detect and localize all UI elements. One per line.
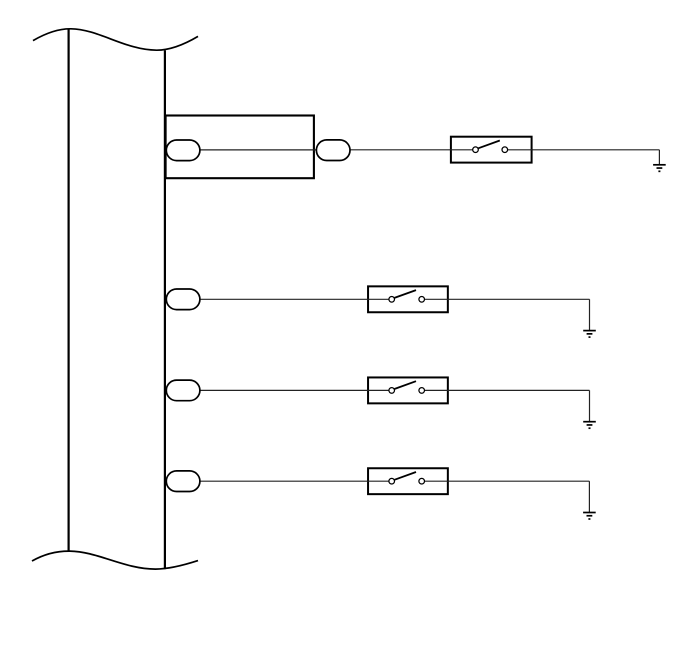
connector box U1 [166,116,314,179]
wire row1 switch S1 to ground bend [505,149,660,151]
ground row1 [653,165,666,172]
ground row2 [583,331,596,338]
wire row1 vertical drop to ground [658,150,660,165]
wire row2 vertical drop to ground [589,299,591,330]
wire row2 pad to switch S2 [201,298,392,300]
wire row1 pad to pad [201,149,317,151]
switch S3 [367,377,449,403]
break mark bottom (squiggle across bus) [32,551,198,569]
wire row2 switch S2 to ground bend [422,298,590,300]
switch S1 [450,137,533,163]
ground row3 [583,422,596,429]
wire row4 switch S4 to ground bend [422,480,590,482]
wire row1 pad to switch S1 [351,149,476,151]
terminal pad row3 on bus [166,380,200,401]
wire row4 pad to switch S4 [201,480,392,482]
terminal pad row4 on bus [166,471,200,492]
wire row4 vertical drop to ground [588,481,590,512]
switch S4 [367,468,449,494]
bus line right [164,50,166,569]
terminal pad row2 on bus [166,289,200,310]
switch S2 [367,286,449,312]
wire row3 pad to switch S3 [201,389,392,391]
ground row4 [583,513,596,520]
bus line left [67,29,69,551]
wire row3 switch S3 to ground bend [422,389,590,391]
break mark top (squiggle across bus) [33,29,198,50]
terminal pad row1 on bus [166,140,200,161]
terminal pad row1 at box edge [316,140,350,161]
wire row3 vertical drop to ground [589,390,591,421]
